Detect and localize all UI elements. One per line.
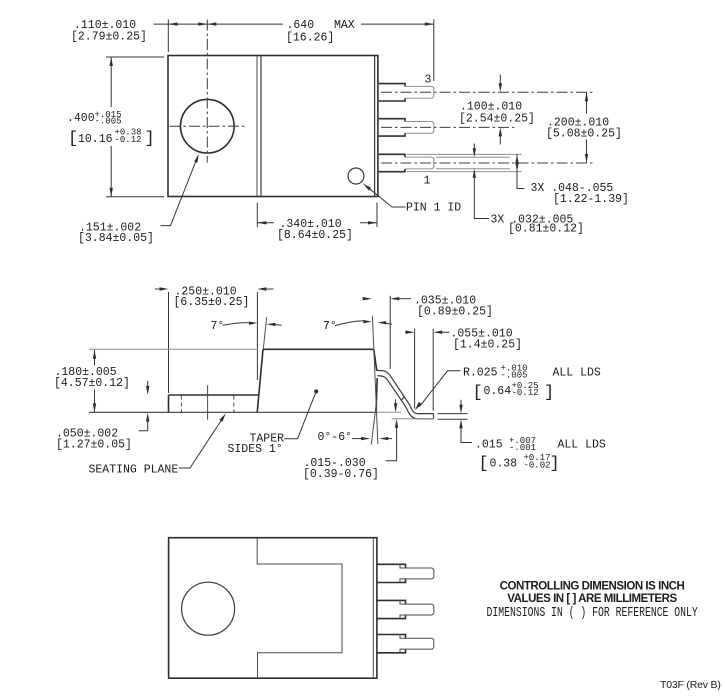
dim .250 ext right xyxy=(256,292,258,380)
lead S-bend outer edge xyxy=(377,370,434,413)
leader PIN 1 ID xyxy=(370,189,406,207)
dim .100 bottom arrow tail xyxy=(499,136,501,144)
7 deg left face extension line xyxy=(263,317,266,349)
hole horizontal centerline xyxy=(170,125,246,127)
bottom lead 2 notch bottom xyxy=(400,615,406,619)
taper leader dot xyxy=(314,389,318,393)
lead 3 centerline xyxy=(381,91,593,93)
bottom lead 2 narrow portion xyxy=(406,604,434,615)
arrow .250 left xyxy=(160,287,169,290)
arrow .151 leader xyxy=(194,154,199,163)
lead foot end face xyxy=(433,414,435,419)
body left tapered face xyxy=(257,349,263,412)
lead 2 narrow portion xyxy=(405,122,434,134)
NOTES xyxy=(487,581,721,692)
7 deg right face extension line xyxy=(372,316,378,444)
dim .180 ext top xyxy=(89,348,258,350)
svg-text:R.025: R.025 xyxy=(463,366,498,379)
svg-text:[2.54±0.25]: [2.54±0.25] xyxy=(459,113,535,126)
dim 3X .032 top arrow xyxy=(473,144,475,149)
svg-text:CONTROLLING DIMENSION IS INCH: CONTROLLING DIMENSION IS INCH xyxy=(500,581,685,593)
lead 1 narrow-edge extension lines xyxy=(436,156,510,158)
hole hidden edge left xyxy=(180,396,182,413)
lead 2 centerline xyxy=(381,126,515,128)
arrow .340 right xyxy=(368,221,377,224)
svg-text:MAX: MAX xyxy=(334,19,355,32)
arrow SEATING PLANE xyxy=(219,413,225,422)
dim 3X .048 arrows xyxy=(515,154,518,163)
svg-text:10.16: 10.16 xyxy=(78,133,113,146)
dim .400 extension bottom xyxy=(106,196,164,198)
svg-text:[0.39-0.76]: [0.39-0.76] xyxy=(303,468,379,481)
leader .151 to hole xyxy=(161,160,197,226)
lead 1 wide-edge extension lines xyxy=(407,153,522,155)
arrow .200 bottom xyxy=(585,154,588,163)
arrow 7 deg left second xyxy=(267,323,276,326)
svg-text:0.38: 0.38 xyxy=(490,457,518,470)
lead crimp tick xyxy=(401,396,404,400)
leader SEATING PLANE xyxy=(179,420,222,468)
SIDE VIEW xyxy=(54,286,606,482)
leader .015-.030 xyxy=(385,427,396,461)
arrow R.025 xyxy=(415,402,422,410)
arrow .340 left xyxy=(257,221,266,224)
FRONT VIEW xyxy=(67,19,629,245)
svg-text:-0.02: -0.02 xyxy=(524,460,551,470)
svg-text:-.001: -.001 xyxy=(509,443,536,453)
dim .055 arrows xyxy=(405,331,407,333)
bottom lead 3 notch bottom xyxy=(400,579,406,583)
tab top edge xyxy=(169,394,259,396)
bottom lead 1 notch top xyxy=(400,635,406,639)
svg-text:.640: .640 xyxy=(287,19,315,32)
lead 1 centerline xyxy=(381,162,593,164)
arrow 7 deg right xyxy=(363,320,372,323)
7 deg left second tail xyxy=(275,324,282,327)
svg-text:[2.79±0.25]: [2.79±0.25] xyxy=(71,30,147,43)
seating plane extension right gray xyxy=(376,411,402,413)
svg-text:.015: .015 xyxy=(475,438,503,451)
arrow .640 right xyxy=(425,22,434,25)
dim .035 ext right xyxy=(389,296,391,369)
dim .200 vertical line xyxy=(586,92,588,163)
svg-text:[0.81±0.12]: [0.81±0.12] xyxy=(508,223,584,236)
dim .015-.030 bottom arrow xyxy=(395,419,398,428)
tab-to-body boundary line 1 xyxy=(256,56,258,196)
body right inner edge line xyxy=(374,56,376,196)
svg-text:3: 3 xyxy=(425,73,432,86)
7 deg right second tail xyxy=(386,322,393,325)
svg-text:ALL LDS: ALL LDS xyxy=(558,438,606,451)
tab-to-body boundary line 2 xyxy=(260,56,262,196)
lead 3 narrow portion xyxy=(405,86,434,98)
bottom lead 1 narrow portion xyxy=(406,638,434,649)
dim .340 extension left xyxy=(256,203,258,228)
dim .055 ext lines xyxy=(414,329,416,409)
svg-text:[6.35±0.25]: [6.35±0.25] xyxy=(174,296,250,309)
body outline front view xyxy=(168,56,378,197)
bottom lead 1 notch bottom xyxy=(400,649,406,653)
svg-text:1: 1 xyxy=(424,175,431,188)
dim .400 vertical line xyxy=(110,57,112,197)
svg-text:[16.26]: [16.26] xyxy=(286,32,334,45)
arrow .400 bottom xyxy=(110,188,113,197)
hole vertical centerline xyxy=(206,20,208,163)
dim .250 ext left xyxy=(168,292,170,393)
svg-text:.400: .400 xyxy=(67,112,95,125)
hole hidden edge right xyxy=(233,396,235,413)
7 deg left leader xyxy=(223,323,249,326)
leader TAPER xyxy=(284,392,316,439)
svg-text:7°: 7° xyxy=(211,320,225,333)
dim .640 extension line at lead tip xyxy=(433,19,435,81)
dim .340 line xyxy=(257,222,377,224)
svg-text:[5.08±0.25]: [5.08±0.25] xyxy=(546,128,622,141)
hole centerline in tab xyxy=(207,385,209,420)
dim .100 top arrow tail xyxy=(499,75,501,84)
svg-text:[1.4±0.25]: [1.4±0.25] xyxy=(453,338,522,351)
lead 1 wide portion xyxy=(379,154,405,171)
svg-text:[8.64±0.25]: [8.64±0.25] xyxy=(277,229,353,242)
leader R.025 xyxy=(420,371,461,407)
arrow 7 deg left xyxy=(249,322,258,325)
body right tapered face xyxy=(374,349,377,371)
bottom lead 3 notch top xyxy=(400,564,406,568)
arrow .035 left xyxy=(363,297,372,300)
0-6 right arrow tail xyxy=(388,438,392,440)
0-6 left arrow tail xyxy=(352,438,362,440)
body top edge xyxy=(263,348,374,350)
svg-text:[3.84±0.05]: [3.84±0.05] xyxy=(78,232,154,245)
lead 2 wide portion xyxy=(379,119,405,136)
arrow .110 right xyxy=(198,22,207,25)
dim .250 line xyxy=(155,288,274,290)
svg-text:[: [ xyxy=(68,130,78,149)
bottom view outer outline xyxy=(169,538,377,679)
arrow .180 bottom xyxy=(93,403,96,412)
bottom lead 3 wide portion xyxy=(377,564,405,582)
svg-text:[1.22-1.39]: [1.22-1.39] xyxy=(553,193,629,206)
foot thickness ext lines right xyxy=(438,413,468,415)
dim .015 bottom arrow and elbow xyxy=(459,419,462,428)
lead 3 wide portion xyxy=(379,84,405,101)
foot bottom extension left xyxy=(392,418,434,420)
tab left edge xyxy=(168,395,170,412)
bottom lead 3 narrow portion xyxy=(406,568,434,579)
dim .340 extension right xyxy=(376,203,378,228)
arrow .640 left xyxy=(207,22,216,25)
svg-text:DIMENSIONS IN ( ) FOR REFERENC: DIMENSIONS IN ( ) FOR REFERENCE ONLY xyxy=(487,604,698,620)
dim .110 / .640 horizontal line xyxy=(154,23,434,25)
svg-text:ALL LDS: ALL LDS xyxy=(553,366,601,379)
dim .035 right tail to text xyxy=(399,298,411,300)
svg-text:]: ] xyxy=(145,130,155,149)
dim .180 line xyxy=(94,350,96,413)
svg-text:SEATING PLANE: SEATING PLANE xyxy=(89,464,179,477)
svg-text:PIN 1 ID: PIN 1 ID xyxy=(406,202,461,215)
bottom lead 1 wide portion xyxy=(377,635,405,653)
svg-text:-.005: -.005 xyxy=(501,370,528,380)
dim .015-.030 top arrow xyxy=(395,399,397,404)
svg-text:]: ] xyxy=(544,383,554,402)
arrow .110 left xyxy=(169,22,178,25)
bottom view inner U outline xyxy=(257,538,342,679)
pin 1 ID circle xyxy=(348,168,364,184)
svg-text:SIDES 1°: SIDES 1° xyxy=(228,443,283,456)
body right face lower segment xyxy=(376,378,377,412)
mounting hole xyxy=(181,99,235,153)
dim .050 bottom arrow and elbow xyxy=(146,413,149,422)
bottom lead 2 wide portion xyxy=(377,600,405,618)
arrow 0-6 left xyxy=(361,437,370,440)
dim .110 extension line at body left xyxy=(167,19,169,52)
svg-text:0.64: 0.64 xyxy=(484,385,512,398)
svg-text:[1.27±0.05]: [1.27±0.05] xyxy=(56,439,132,452)
bottom view hole xyxy=(182,582,235,635)
seating plane line xyxy=(89,411,375,413)
svg-text:T03F (Rev B): T03F (Rev B) xyxy=(660,679,721,691)
arrow .200 top xyxy=(585,92,588,101)
BOTTOM VIEW xyxy=(169,538,434,679)
svg-text:7°: 7° xyxy=(323,320,337,333)
arrow 7 deg right second xyxy=(378,321,387,324)
arrow .100 top xyxy=(499,83,502,92)
arrow .035 right xyxy=(390,297,399,300)
svg-text:-0.12: -0.12 xyxy=(512,388,539,398)
arrow .100 bottom xyxy=(499,127,502,136)
svg-text:[: [ xyxy=(473,383,483,402)
arrow .400 top xyxy=(110,57,113,66)
dim .015 top arrow xyxy=(460,400,462,405)
0-6 deg lead tilt line xyxy=(371,398,377,444)
leader 3X .048 elbow xyxy=(517,154,525,188)
svg-text:[4.57±0.12]: [4.57±0.12] xyxy=(54,377,130,390)
svg-text:-.005: -.005 xyxy=(95,117,122,127)
dim .050 top arrow xyxy=(147,381,149,386)
arrow PIN 1 ID xyxy=(363,184,371,191)
svg-text:[0.89±0.25]: [0.89±0.25] xyxy=(417,306,493,319)
svg-text:0°-6°: 0°-6° xyxy=(318,431,353,444)
arrow .250 right xyxy=(257,287,266,290)
bottom lead 2 notch top xyxy=(400,600,406,604)
svg-text:[: [ xyxy=(479,455,489,474)
bottom view right inner edge xyxy=(372,538,374,678)
dim 3X .032 bottom arrow and leader elbow xyxy=(473,169,476,178)
svg-text:]: ] xyxy=(550,455,560,474)
arrow .180 top xyxy=(93,350,96,359)
arrow 0-6 right xyxy=(379,437,388,440)
lead 1 narrow portion xyxy=(405,157,434,169)
7 deg right leader xyxy=(335,321,363,326)
lead S-bend inner edge xyxy=(377,376,433,419)
dim .400 extension top xyxy=(106,56,164,58)
svg-text:-0.12: -0.12 xyxy=(115,135,142,145)
